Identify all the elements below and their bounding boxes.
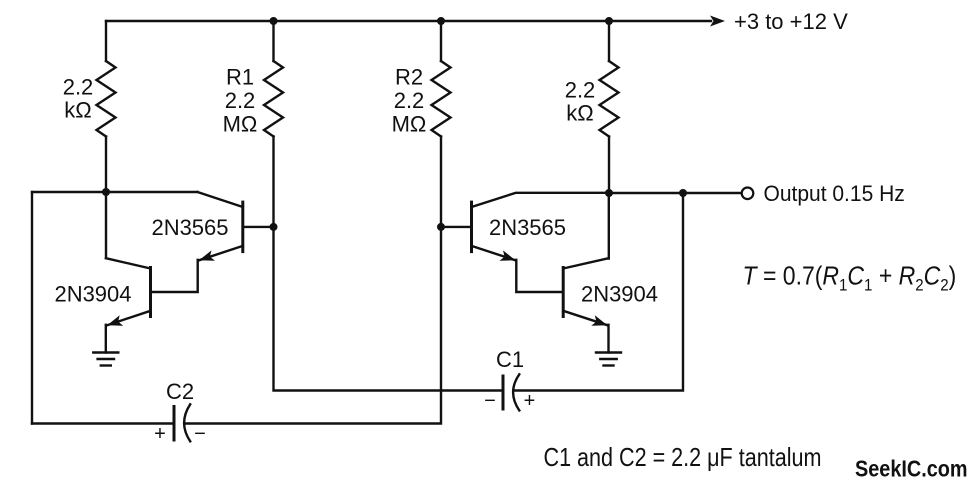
- wire left resistor to node L: [105, 137, 107, 193]
- wire node L down to Q2 collector: [105, 192, 107, 258]
- resistor R2 2.2 MOhm: [432, 61, 451, 137]
- caption C1 and C2 value: [544, 443, 822, 472]
- ground right: [596, 353, 621, 366]
- output terminal: [742, 188, 754, 200]
- wire rail to R2: [440, 21, 442, 61]
- label 2.2 kOhm left: [63, 75, 94, 123]
- label 2N3904 right: [581, 282, 658, 307]
- wire R1 branch down to C1: [274, 227, 504, 391]
- label 2N3904 left: [54, 282, 131, 307]
- transistor Q4 2N3904 right: [563, 258, 608, 326]
- label C2 minus: [194, 423, 206, 445]
- wire rail to R1: [272, 21, 274, 61]
- formula T = 0.7(R1C1 + R2C2): [743, 262, 957, 294]
- wire Q2 emitter to ground: [105, 325, 107, 353]
- svg-text:2N3565: 2N3565: [489, 215, 566, 240]
- watermark SeekIC.com: [855, 455, 968, 482]
- svg-text:−: −: [194, 423, 206, 445]
- label 2.2 kOhm right: [565, 78, 596, 126]
- transistor Q3 2N3565 right: [472, 193, 610, 261]
- svg-text:−: −: [484, 390, 496, 412]
- wire R2 branch down to C2: [186, 227, 441, 424]
- node rail-R1: [270, 17, 278, 25]
- node output junction: [605, 189, 613, 197]
- wire R1 to base node: [272, 137, 274, 227]
- wire R2 to base node: [440, 137, 442, 227]
- wire output line: [609, 192, 742, 194]
- label C1 minus: [484, 390, 496, 412]
- svg-text:MΩ: MΩ: [392, 112, 427, 137]
- label Output 0.15 Hz: [764, 182, 905, 207]
- svg-text:2.2: 2.2: [225, 88, 256, 113]
- svg-text:+: +: [524, 390, 536, 412]
- svg-text:2N3565: 2N3565: [151, 215, 228, 240]
- label C2: [166, 379, 194, 404]
- wire right resistor to output node: [608, 137, 610, 194]
- wire left feedback drop: [31, 192, 33, 424]
- node rail-R2: [437, 17, 445, 25]
- svg-text:R1: R1: [226, 65, 254, 90]
- svg-text:Output 0.15 Hz: Output 0.15 Hz: [764, 182, 905, 207]
- svg-text:T = 0.7(R1C1 + R2C2): T = 0.7(R1C1 + R2C2): [743, 262, 957, 294]
- transistor Q1 2N3565 left: [198, 192, 274, 261]
- node output to C1: [679, 189, 687, 197]
- wire Q4 collector to output node: [608, 193, 610, 259]
- svg-text:+: +: [154, 423, 166, 445]
- svg-text:2N3904: 2N3904: [54, 282, 131, 307]
- svg-text:+3 to +12 V: +3 to +12 V: [734, 9, 848, 34]
- wire left feedback horizontal: [32, 191, 198, 193]
- label +3 to +12 V: [734, 9, 848, 34]
- svg-text:kΩ: kΩ: [64, 98, 91, 123]
- wire Q1 emitter to Q2 base: [151, 260, 198, 292]
- resistor R1 2.2 MOhm: [264, 61, 283, 137]
- svg-text:C1: C1: [496, 347, 524, 372]
- capacitor C2: [174, 404, 190, 441]
- svg-text:R2: R2: [395, 65, 423, 90]
- ground left: [93, 353, 118, 366]
- wire C2 left lead: [32, 422, 174, 424]
- node rail-right-2.2k: [605, 17, 613, 25]
- wire rail to left resistor: [105, 21, 107, 61]
- node collector left: [102, 188, 110, 196]
- svg-text:SeekIC.com: SeekIC.com: [855, 455, 968, 482]
- node base Q3 / R2: [437, 223, 445, 231]
- label 2N3565 left: [151, 215, 228, 240]
- wire Q4 emitter to ground: [607, 325, 609, 353]
- transistor Q2 2N3904 left: [106, 258, 151, 326]
- wire top supply rail: [106, 20, 711, 22]
- label C1 plus: [524, 390, 536, 412]
- svg-text:2N3904: 2N3904: [581, 282, 658, 307]
- svg-text:2.2: 2.2: [63, 75, 94, 100]
- svg-text:2.2: 2.2: [394, 88, 425, 113]
- wire base node R2 to Q3: [441, 226, 472, 228]
- svg-text:C1 and C2 = 2.2 μF tantalum: C1 and C2 = 2.2 μF tantalum: [544, 443, 822, 472]
- label C2 plus: [154, 423, 166, 445]
- svg-text:C2: C2: [166, 379, 194, 404]
- capacitor C1: [503, 374, 519, 410]
- label 2N3565 right: [489, 215, 566, 240]
- wire rail to right resistor: [608, 21, 610, 61]
- svg-text:2.2: 2.2: [565, 78, 596, 103]
- wire C1 to output drop: [514, 193, 683, 391]
- svg-text:MΩ: MΩ: [223, 112, 258, 137]
- supply arrow: [710, 16, 725, 27]
- resistor 2.2 kOhm right: [600, 61, 619, 137]
- label R1 2.2 MOhm: [223, 65, 258, 137]
- label R2 2.2 MOhm: [392, 65, 427, 137]
- svg-text:kΩ: kΩ: [566, 101, 593, 126]
- wire Q3 emitter to Q4 base: [516, 260, 563, 292]
- node base Q1 / R1: [270, 223, 278, 231]
- resistor 2.2 kOhm left: [97, 61, 116, 137]
- label C1: [496, 347, 524, 372]
